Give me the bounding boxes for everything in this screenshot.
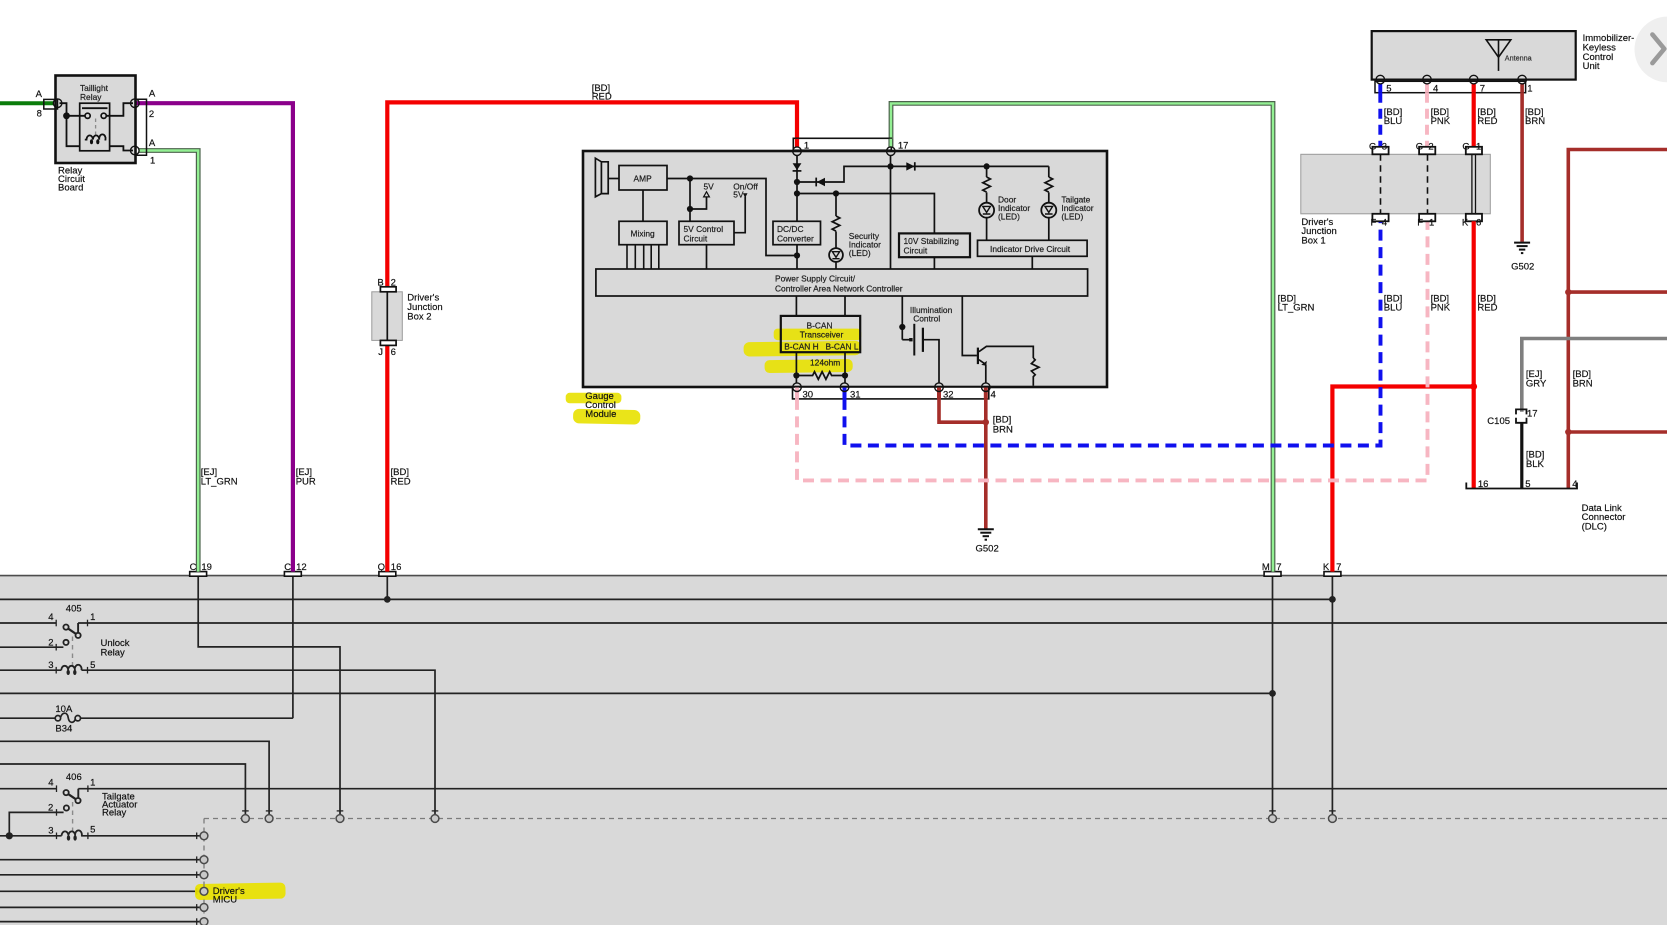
connector C105 — [1516, 409, 1527, 414]
wire: relay 406 coil line to MICU — [0, 835, 201, 837]
svg-text:Antenna: Antenna — [1505, 54, 1532, 63]
svg-text:PNK: PNK — [1431, 116, 1451, 127]
junction box 2 pass-through — [386, 292, 388, 341]
wire: relay 405 contact line (full width) — [0, 622, 1667, 624]
svg-text:1: 1 — [150, 156, 155, 167]
svg-text:BLU: BLU — [1384, 302, 1403, 313]
svg-text:Module: Module — [585, 409, 616, 420]
taillight relay contact bar — [82, 107, 108, 109]
junction: Q16 on bus — [384, 596, 391, 603]
pin B2 bracket — [380, 287, 396, 292]
svg-text:G502: G502 — [976, 544, 999, 555]
pin 32 stub — [937, 388, 941, 399]
svg-text:Indicator Drive Circuit: Indicator Drive Circuit — [990, 244, 1071, 254]
svg-text:K: K — [1462, 217, 1469, 228]
label row [BD] BLU PNK RED BRN — [1384, 107, 1545, 127]
svg-text:17: 17 — [1527, 409, 1538, 420]
resistor + LED tailgate indicator — [1045, 166, 1053, 202]
wire [EJ] GRN feed into Taillight Relay pin A8 — [0, 101, 53, 105]
svg-text:1: 1 — [90, 778, 95, 789]
module top connector bracket — [793, 138, 891, 150]
AMP block — [619, 166, 667, 191]
fuse B34 10A — [55, 704, 80, 735]
pin circles 5 4 7 1 — [1376, 75, 1385, 84]
B-CAN drops to pins 30/31 — [795, 352, 797, 383]
svg-text:12: 12 — [296, 562, 307, 573]
svg-text:Box 1: Box 1 — [1301, 236, 1325, 247]
pin 17 stub — [888, 139, 893, 148]
svg-text:2: 2 — [391, 278, 396, 289]
internal double-line pass-through G1-K6 — [1471, 154, 1473, 214]
svg-text:406: 406 — [66, 772, 82, 783]
svg-text:Controller Area Network Contro: Controller Area Network Controller — [775, 283, 903, 293]
svg-text:1: 1 — [1476, 142, 1481, 153]
svg-text:4: 4 — [1382, 217, 1387, 228]
transistor Q2 — [962, 296, 977, 356]
pin 4 stub — [984, 388, 988, 399]
svg-text:124ohm: 124ohm — [810, 358, 840, 368]
svg-text:2: 2 — [48, 637, 53, 648]
Driver's Junction Box 1 — [1301, 142, 1491, 247]
brackets G3 G2 G1 — [1372, 147, 1482, 222]
wire AMP output — [667, 179, 797, 256]
wire [BD] BRN from pin 4 to G502 — [984, 399, 988, 529]
svg-text:(LED): (LED) — [998, 211, 1020, 221]
wire [BD] RED : junction box 2 / Q16 / gauge module pin 1 — [387, 102, 797, 571]
pin A2 / A1 bracket — [136, 99, 147, 155]
relay 406 Tailgate Actuator Relay — [48, 772, 137, 841]
junction on AMP output — [687, 175, 693, 181]
junction BRN rail lower — [1565, 429, 1571, 435]
svg-text:5V: 5V — [733, 190, 744, 200]
switch contact 406 — [64, 789, 81, 811]
wire: fuse B34 line to C12 — [0, 717, 293, 719]
svg-text:3: 3 — [48, 660, 53, 671]
svg-text:1: 1 — [1527, 84, 1532, 95]
svg-text:Relay: Relay — [102, 808, 127, 819]
svg-text:6: 6 — [1476, 217, 1481, 228]
svg-text:32: 32 — [943, 389, 954, 400]
wire [BD] BLK : C105 to DLC 5 — [1520, 424, 1523, 489]
wire [BD] RED branch to K7 — [1332, 387, 1473, 572]
pin J6 bracket — [380, 340, 396, 345]
junction red at DLC branch — [1470, 383, 1477, 390]
svg-text:5: 5 — [1525, 479, 1530, 490]
wire 5V control to power supply — [706, 245, 708, 269]
svg-text:Power Supply Circuit/: Power Supply Circuit/ — [775, 274, 856, 284]
svg-text:17: 17 — [898, 140, 909, 151]
pin 31 stub — [843, 388, 847, 399]
wire: bus line to M7 — [0, 692, 1273, 694]
fuse box / under-dash fuse-relay box (bottom gray panel) — [0, 576, 1667, 925]
svg-text:G: G — [1416, 142, 1423, 153]
MICU boundary pin circles (top edge) — [200, 815, 1336, 925]
svg-text:30: 30 — [803, 389, 814, 400]
svg-text:16: 16 — [391, 562, 402, 573]
wire [BD] BRN imm to ground — [1520, 93, 1524, 242]
pin labels C19 C12 Q16 M7 K7 — [190, 562, 1342, 573]
junction: relay406 pin2 to coil line — [6, 832, 13, 839]
svg-text:4: 4 — [48, 778, 53, 789]
taillight relay inner box — [80, 103, 110, 151]
5V tap arrow — [690, 198, 707, 210]
pin 1 internal rail with diode D1 — [796, 155, 798, 269]
wire: MICU input line 6 — [0, 921, 201, 923]
switch contact 405 — [63, 623, 80, 645]
wire [BD] BLU : pin 31 to F4 — [845, 222, 1381, 446]
wire AMP to 5V control — [689, 179, 691, 222]
svg-text:GRY: GRY — [1526, 378, 1547, 389]
taillight relay contact circles — [85, 113, 90, 118]
wire [BD] LT_GRN : gauge module pin 17 to M7 — [891, 103, 1273, 571]
svg-text:Q: Q — [378, 562, 385, 573]
svg-text:MICU: MICU — [213, 895, 237, 906]
svg-text:Relay: Relay — [101, 647, 126, 658]
svg-text:G502: G502 — [1511, 261, 1534, 272]
10V Stabilizing Circuit block — [899, 233, 970, 257]
svg-text:B34: B34 — [55, 724, 72, 735]
svg-text:A: A — [36, 89, 43, 100]
Mixing block — [619, 221, 667, 244]
svg-text:G: G — [1369, 142, 1376, 153]
wire: MICU input line 5 — [0, 906, 201, 908]
svg-text:31: 31 — [850, 389, 861, 400]
wire: C19 internal route — [198, 576, 340, 815]
wire [BD] PNK : pin 30 to F1 — [797, 222, 1428, 481]
module bottom connector bracket — [793, 387, 989, 399]
Power Supply / CAN Controller block — [596, 269, 1088, 296]
ground G502 (immobilizer) — [1514, 243, 1530, 254]
internal wiring left — [60, 103, 86, 146]
MICU boundary pin circles (left edge) — [200, 832, 208, 840]
wire [BD] RED imm to G1 — [1472, 93, 1476, 147]
svg-text:(LED): (LED) — [849, 248, 871, 258]
svg-text:M: M — [1262, 562, 1270, 573]
pin M7 bracket — [1264, 572, 1281, 577]
brackets F4 F1 K6 — [1372, 214, 1388, 222]
svg-text:RED: RED — [592, 92, 612, 103]
resistor + LED door indicator — [984, 163, 990, 169]
wire [BD] BRN rail (right) — [1568, 150, 1667, 489]
svg-text:1: 1 — [90, 612, 95, 623]
svg-text:10V Stabilizing: 10V Stabilizing — [904, 236, 960, 246]
svg-text:BLK: BLK — [1526, 459, 1545, 470]
wire: bus line to Q16 and K7 — [0, 598, 1332, 600]
svg-text:PNK: PNK — [1431, 302, 1451, 313]
wire: Q16 internal drop — [386, 576, 388, 599]
resistor (security indicator) — [832, 194, 840, 249]
highlighter mark on Gauge label — [566, 393, 622, 404]
svg-text:F: F — [1371, 217, 1377, 228]
svg-text:(DLC): (DLC) — [1582, 521, 1607, 532]
DC/DC Converter block — [773, 221, 821, 244]
svg-text:Transceiver: Transceiver — [800, 330, 844, 340]
svg-text:Board: Board — [58, 183, 83, 194]
svg-text:Mixing: Mixing — [631, 228, 656, 238]
svg-text:LT_GRN: LT_GRN — [1278, 302, 1315, 313]
svg-text:2: 2 — [48, 802, 53, 813]
svg-text:C: C — [284, 562, 291, 573]
relay 406 internal dashed link — [72, 802, 74, 832]
svg-text:G: G — [1462, 142, 1469, 153]
pin A8 connector — [44, 99, 58, 109]
pin K7 bracket — [1324, 572, 1341, 577]
svg-text:RED: RED — [1477, 116, 1497, 127]
wire speaker to AMP — [608, 178, 619, 180]
svg-text:C105: C105 — [1487, 416, 1510, 427]
10V feed line — [797, 194, 934, 234]
wire: C12 internal drop — [292, 576, 294, 718]
svg-text:C: C — [190, 562, 197, 573]
svg-text:7: 7 — [1480, 84, 1485, 95]
tick marks on wire ends — [56, 620, 1336, 925]
svg-text:2: 2 — [149, 109, 154, 120]
svg-text:5: 5 — [1386, 84, 1391, 95]
svg-text:(LED): (LED) — [1061, 211, 1083, 221]
pin C19 bracket — [190, 572, 207, 577]
junction: K7 on bus — [1329, 596, 1336, 603]
highlighter mark on Driver's MICU label — [195, 883, 286, 901]
svg-text:Unit: Unit — [1583, 61, 1600, 72]
relay 405 internal dashed link — [72, 637, 74, 667]
wire [BD] RED : K6 to DLC 16 and K7 — [1472, 221, 1476, 488]
B-CAN Transceiver block — [781, 316, 860, 352]
navigation chevron button (top right) — [1635, 17, 1667, 83]
svg-text:Circuit: Circuit — [684, 234, 708, 244]
wire: MICU input line 4 — [0, 890, 201, 892]
wire: relay 405 pin 2 line — [0, 646, 63, 648]
taillight relay dashed link — [95, 119, 97, 136]
svg-text:B-CAN H: B-CAN H — [784, 342, 818, 352]
speaker — [595, 158, 608, 197]
highlighter mark on B-CAN Transceiver — [774, 329, 862, 341]
relay 405 coil — [61, 665, 81, 670]
wire: relay 405 coil line to MICU — [0, 670, 435, 814]
wire [EJ] PUR : relay A2 to C12 — [136, 103, 293, 571]
svg-text:B-CAN L: B-CAN L — [826, 342, 859, 352]
svg-text:Control: Control — [913, 314, 940, 324]
LED security indicator — [829, 248, 843, 262]
diode D3 (indicator feed) — [891, 165, 1049, 167]
internal dashed pass-throughs — [1380, 154, 1382, 214]
junction 5V tap — [687, 206, 693, 212]
pin stubs — [1378, 84, 1382, 93]
svg-text:2: 2 — [1428, 142, 1433, 153]
svg-text:19: 19 — [201, 562, 212, 573]
svg-text:A: A — [149, 138, 156, 149]
relay 405 Unlock Relay — [48, 604, 130, 676]
svg-text:RED: RED — [391, 476, 411, 487]
svg-text:Relay: Relay — [80, 92, 102, 102]
wire [BD] BRN from pin 32 — [939, 399, 986, 422]
junction security branch — [833, 190, 839, 196]
svg-text:K: K — [1323, 562, 1330, 573]
svg-text:AMP: AMP — [634, 173, 653, 183]
svg-text:F: F — [1417, 217, 1423, 228]
svg-text:5: 5 — [90, 825, 95, 836]
junction: relay input node — [63, 112, 70, 119]
Gauge Control Module U1 — [566, 138, 1107, 424]
svg-text:J: J — [378, 347, 383, 358]
antenna symbol — [1486, 40, 1511, 57]
B-CAN H / L rails — [795, 296, 797, 316]
pin circles 30 31 32 4 — [793, 383, 802, 392]
svg-text:7: 7 — [1276, 562, 1281, 573]
svg-text:DC/DC: DC/DC — [777, 224, 804, 234]
svg-text:4: 4 — [48, 612, 53, 623]
wire [EJ] GRY — [1522, 339, 1667, 412]
svg-text:1: 1 — [1429, 217, 1434, 228]
relay 406 coil — [62, 830, 82, 835]
pin 30 stub — [795, 388, 799, 399]
ground G502 (gauge module) — [978, 529, 994, 540]
Immobilizer-Keyless Control Unit — [1372, 31, 1635, 94]
svg-text:5: 5 — [90, 660, 95, 671]
pin 17 internal rail — [890, 155, 892, 269]
wire: MICU input line 2 — [0, 859, 201, 861]
wire [BD] PNK imm to G2 — [1425, 93, 1429, 147]
svg-text:5V Control: 5V Control — [684, 224, 724, 234]
svg-text:Box 2: Box 2 — [407, 311, 431, 322]
Data Link Connector (DLC) — [1466, 483, 1577, 489]
pin 1 stub — [795, 139, 799, 148]
svg-text:405: 405 — [66, 604, 82, 615]
svg-text:6: 6 — [391, 347, 396, 358]
wire AMP to Mixing — [642, 190, 644, 221]
Indicator Drive Circuit block — [978, 240, 1088, 256]
immobilizer connector bracket — [1375, 81, 1526, 92]
svg-text:1: 1 — [804, 140, 809, 151]
resistor at transistor collector — [1031, 358, 1039, 386]
taillight relay coil — [85, 134, 106, 139]
wire: line to MICU circle 2 — [0, 741, 269, 814]
pin 1 circle — [793, 147, 802, 156]
svg-text:BLU: BLU — [1384, 116, 1403, 127]
svg-text:PUR: PUR — [296, 476, 316, 487]
svg-text:5V: 5V — [704, 181, 715, 191]
Taillight Relay on Relay Circuit Board — [36, 76, 156, 194]
5V Control Circuit block — [679, 221, 734, 244]
svg-text:3: 3 — [48, 826, 53, 837]
svg-text:BRN: BRN — [1573, 378, 1593, 389]
wire: K7 internal drop — [1331, 576, 1333, 815]
highlighter mark on 124ohm — [765, 359, 853, 373]
svg-text:4: 4 — [1572, 479, 1577, 490]
svg-text:16: 16 — [1478, 479, 1489, 490]
svg-text:7: 7 — [1336, 562, 1341, 573]
internal wiring right — [106, 103, 133, 150]
svg-text:LT_GRN: LT_GRN — [201, 476, 238, 487]
svg-text:4: 4 — [1433, 84, 1438, 95]
wire [BD] BLU imm to G3 — [1378, 93, 1382, 147]
highlighter mark on B-CAN H / B-CAN L — [744, 341, 862, 357]
svg-text:8: 8 — [37, 108, 42, 119]
wire [EJ] LT_GRN : relay A1 to C19 — [139, 151, 198, 572]
svg-text:RED: RED — [1477, 302, 1497, 313]
svg-text:BRN: BRN — [1525, 116, 1545, 127]
svg-text:3: 3 — [1382, 142, 1387, 153]
pin Q16 bracket — [379, 572, 396, 577]
pin C12 bracket — [284, 572, 301, 577]
wire: MICU input line 3 — [0, 874, 201, 876]
wire: relay 406 contact line (full width) — [0, 788, 1667, 790]
junction: M7 line end — [1269, 690, 1276, 697]
wire: line to MICU circle 1 — [0, 764, 245, 815]
svg-text:Converter: Converter — [777, 234, 814, 244]
pin 17 circle — [887, 147, 896, 156]
connector brackets on fuse box top edge — [190, 572, 1341, 577]
svg-text:A: A — [149, 89, 156, 100]
junction BRN rail upper — [1565, 289, 1571, 295]
svg-text:B: B — [377, 278, 383, 289]
wire: M7 internal drop — [1272, 576, 1274, 815]
svg-text:4: 4 — [991, 389, 996, 400]
label row 2 [BD] BLU PNK RED — [1384, 293, 1498, 313]
svg-text:BRN: BRN — [993, 424, 1013, 435]
Driver's MICU dashed boundary — [204, 819, 1667, 925]
Driver's Junction Box 2 — [372, 278, 443, 359]
highlighter mark on Module label — [573, 409, 640, 425]
Mixing output bus — [627, 245, 659, 269]
junction dots on pin1 rail — [794, 179, 800, 185]
diode D2 (to pin 17 rail) — [797, 166, 891, 182]
junction BRN wires — [983, 419, 989, 425]
wire: relay 406 pin2 jog — [9, 812, 63, 835]
svg-text:Circuit: Circuit — [904, 246, 928, 256]
